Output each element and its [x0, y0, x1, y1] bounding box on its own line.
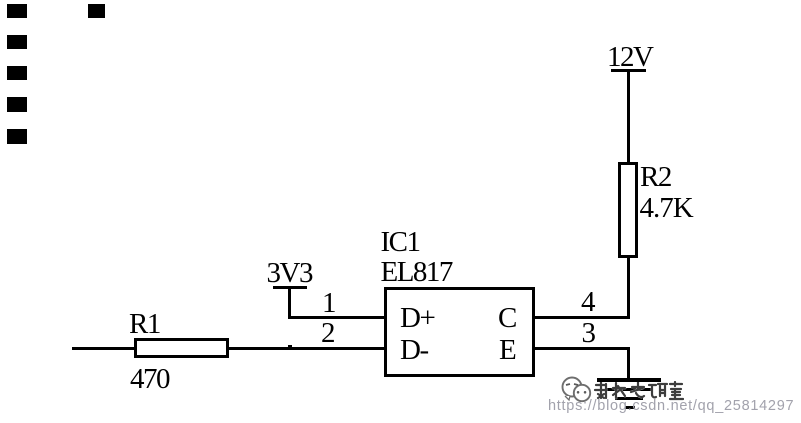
ground bar 3	[615, 397, 643, 400]
junction tick	[288, 345, 292, 347]
artifact square A5	[7, 97, 27, 112]
artifact square A6	[7, 129, 27, 144]
wire pin3	[532, 347, 630, 350]
wire pin2 (R1 to IC1)	[228, 347, 385, 350]
pin label D+	[400, 304, 434, 333]
wire pin3 down to ground	[627, 347, 630, 379]
watermark logo	[556, 374, 596, 406]
pin number 3	[582, 319, 595, 348]
value 4.7K	[640, 194, 693, 223]
pin number 2	[321, 319, 334, 348]
pin number 1	[322, 289, 335, 318]
wire left to R1	[72, 347, 136, 350]
label R1	[129, 310, 160, 339]
artifact square A3	[7, 35, 27, 49]
power 3V3 label	[267, 259, 312, 288]
wire pin4	[532, 316, 630, 319]
artifact square A4	[7, 66, 27, 80]
resistor R1	[134, 338, 229, 358]
ground bar 4	[625, 406, 635, 409]
artifact square A1	[7, 4, 27, 18]
ground bar 1	[597, 378, 661, 382]
optocoupler IC1 box	[384, 287, 535, 377]
label EL817	[381, 258, 452, 287]
artifact square A2	[88, 4, 105, 18]
wire 12V to R2	[627, 71, 630, 162]
ground bar 2	[607, 388, 651, 392]
watermark url	[548, 398, 794, 414]
watermark text kejilaowantong (SVG strokes)	[592, 381, 684, 402]
pin number 4	[581, 288, 594, 317]
power 12V label	[607, 43, 652, 72]
label IC1	[381, 228, 420, 257]
pin label C	[498, 304, 516, 333]
value 470	[130, 365, 169, 394]
power 3V3 bar	[273, 286, 307, 289]
label R2	[640, 163, 671, 192]
resistor R2	[618, 162, 638, 258]
wire pin1	[289, 316, 385, 319]
wire R2 to pin4	[627, 256, 630, 319]
wire 3V3 down	[288, 288, 291, 319]
pin label E	[499, 336, 515, 365]
pin label D-	[400, 336, 428, 365]
power 12V bar	[611, 69, 646, 72]
